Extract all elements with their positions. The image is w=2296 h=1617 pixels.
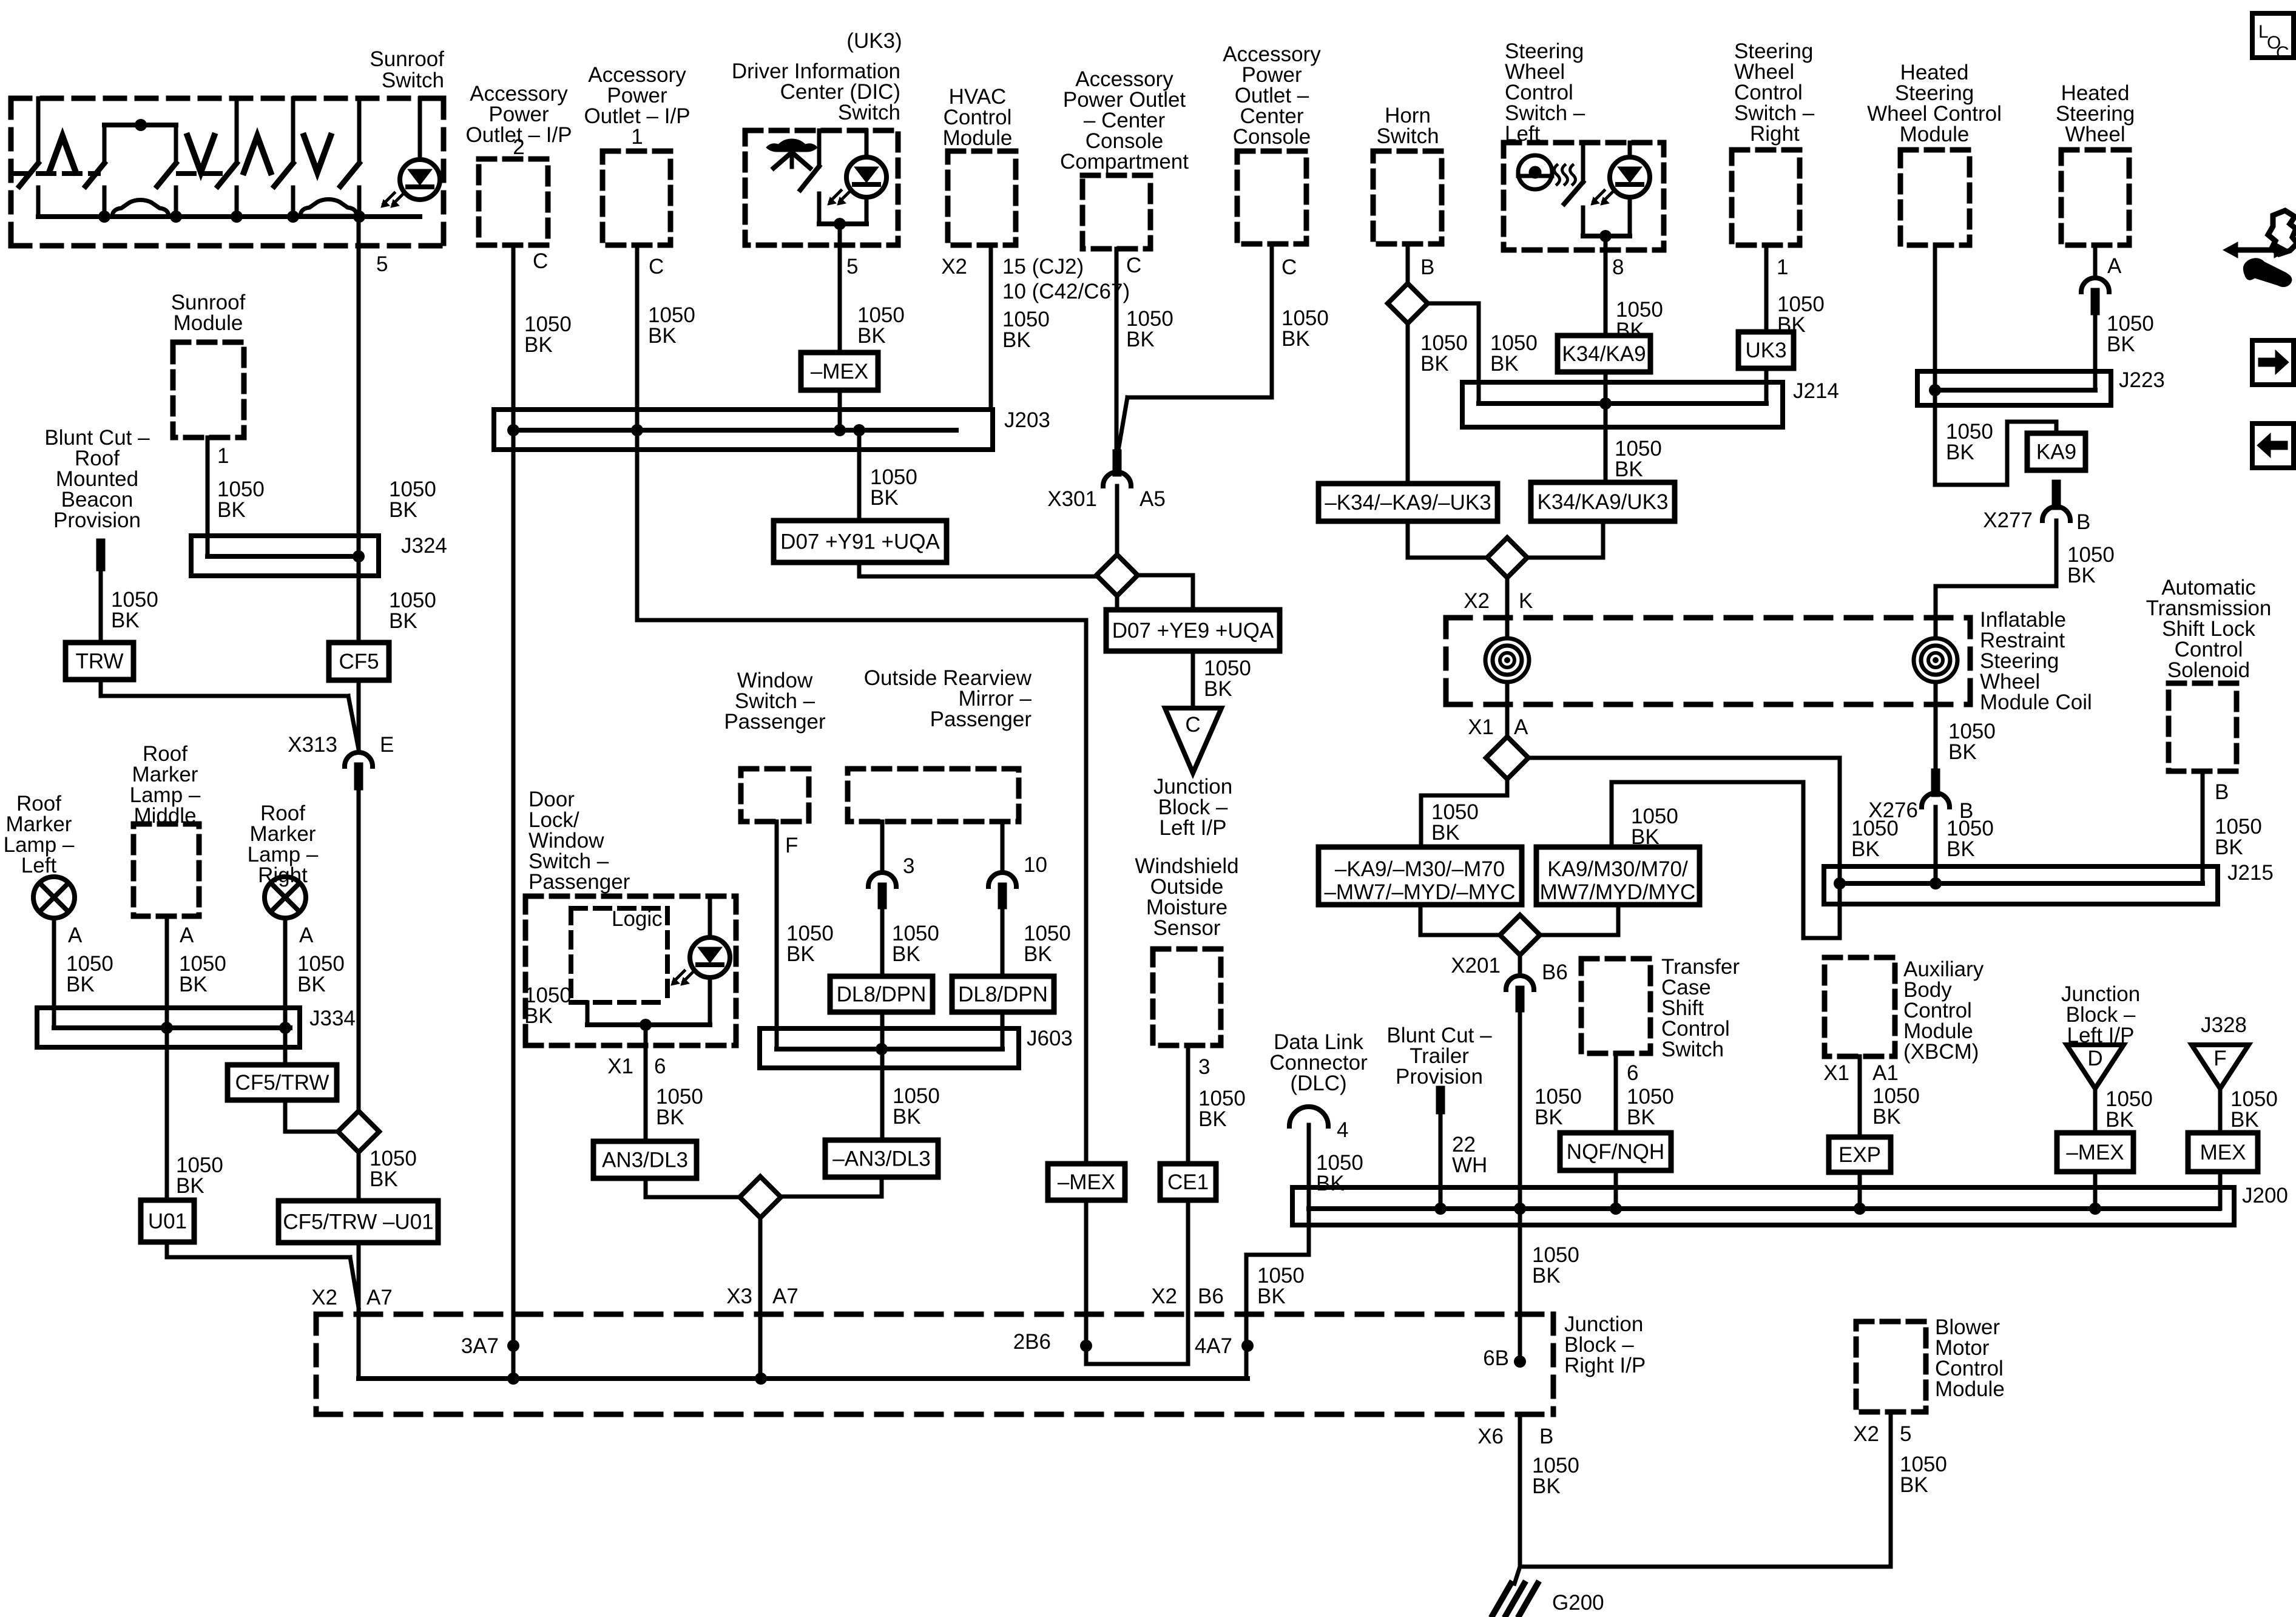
svg-text:–MEX: –MEX (1058, 1170, 1115, 1194)
svg-text:BK: BK (857, 324, 886, 348)
svg-text:KA9/M30/M70/: KA9/M30/M70/ (1547, 857, 1688, 881)
svg-text:Switch: Switch (1376, 124, 1439, 148)
svg-text:X1: X1 (1468, 715, 1494, 739)
svg-text:K: K (1519, 589, 1533, 613)
svg-text:(UK3): (UK3) (846, 29, 902, 53)
svg-text:BK: BK (870, 486, 899, 510)
svg-text:B6: B6 (1542, 960, 1568, 984)
svg-text:BK: BK (1627, 1106, 1655, 1129)
svg-text:BK: BK (176, 1174, 204, 1198)
svg-text:BK: BK (1532, 1474, 1561, 1498)
svg-text:Sensor: Sensor (1153, 916, 1221, 940)
svg-text:CF5/TRW –U01: CF5/TRW –U01 (283, 1210, 433, 1234)
svg-text:F: F (785, 834, 798, 857)
svg-text:CF5/TRW: CF5/TRW (235, 1071, 329, 1095)
svg-text:8: 8 (1612, 255, 1624, 279)
svg-text:6B: 6B (1483, 1346, 1509, 1370)
svg-text:BK: BK (1316, 1172, 1345, 1195)
svg-text:BK: BK (1490, 352, 1519, 376)
svg-text:BK: BK (1851, 837, 1880, 861)
svg-text:F: F (2213, 1047, 2226, 1070)
svg-text:J328: J328 (2201, 1013, 2247, 1037)
svg-text:Compartment: Compartment (1060, 150, 1189, 174)
svg-text:TRW: TRW (75, 650, 123, 673)
svg-text:X2: X2 (1464, 589, 1490, 613)
svg-text:BK: BK (1126, 328, 1155, 351)
svg-text:BK: BK (1616, 319, 1644, 342)
svg-text:U01: U01 (148, 1210, 187, 1234)
svg-text:5: 5 (376, 252, 388, 276)
svg-text:EXP: EXP (1838, 1143, 1881, 1167)
svg-text:BK: BK (786, 942, 815, 966)
svg-text:C: C (1281, 255, 1297, 279)
svg-text:Passenger: Passenger (528, 870, 630, 894)
svg-text:Switch: Switch (382, 69, 444, 92)
svg-text:Provision: Provision (53, 508, 141, 532)
svg-text:3A7: 3A7 (461, 1334, 499, 1358)
svg-text:Solenoid: Solenoid (2167, 658, 2250, 682)
svg-text:BK: BK (1198, 1107, 1227, 1131)
svg-text:5: 5 (846, 255, 858, 279)
svg-text:BK: BK (656, 1106, 684, 1129)
svg-text:BK: BK (2107, 333, 2135, 356)
svg-text:Passenger: Passenger (724, 710, 826, 734)
svg-text:C: C (1185, 713, 1200, 737)
svg-text:BK: BK (1947, 837, 1975, 861)
svg-text:J324: J324 (401, 534, 447, 558)
svg-text:BK: BK (1204, 677, 1232, 701)
svg-text:5: 5 (1900, 1422, 1911, 1446)
svg-text:D07 +YE9 +UQA: D07 +YE9 +UQA (1112, 619, 1274, 643)
svg-text:J603: J603 (1027, 1027, 1073, 1050)
svg-text:BK: BK (217, 498, 246, 522)
svg-text:J214: J214 (1793, 379, 1839, 403)
svg-text:X2: X2 (1853, 1422, 1879, 1446)
svg-text:CF5: CF5 (339, 650, 379, 673)
svg-text:BK: BK (370, 1167, 398, 1191)
svg-text:MW7/MYD/MYC: MW7/MYD/MYC (1540, 880, 1696, 904)
svg-text:A: A (180, 923, 194, 947)
svg-text:X3: X3 (726, 1284, 752, 1308)
svg-text:10 (C42/C67): 10 (C42/C67) (1002, 280, 1130, 303)
svg-text:BK: BK (892, 942, 920, 966)
svg-text:BK: BK (1431, 821, 1460, 845)
svg-text:10: 10 (1024, 853, 1047, 877)
svg-text:–MEX: –MEX (2066, 1141, 2124, 1164)
svg-text:K34/KA9/UK3: K34/KA9/UK3 (1538, 490, 1669, 514)
svg-text:Right I/P: Right I/P (1564, 1354, 1646, 1377)
svg-text:–MEX: –MEX (811, 360, 868, 383)
svg-text:WH: WH (1452, 1153, 1487, 1177)
svg-text:AN3/DL3: AN3/DL3 (602, 1149, 688, 1172)
svg-text:X1: X1 (1823, 1061, 1849, 1085)
svg-text:–K34/–KA9/–UK3: –K34/–KA9/–UK3 (1325, 491, 1491, 515)
svg-text:BK: BK (524, 1004, 553, 1028)
svg-text:BK: BK (1257, 1284, 1286, 1308)
svg-text:BK: BK (179, 973, 208, 996)
svg-text:X301: X301 (1047, 487, 1097, 511)
svg-text:A: A (1514, 715, 1528, 739)
svg-text:Left: Left (21, 854, 57, 877)
svg-text:J215: J215 (2227, 861, 2274, 885)
svg-text:A7: A7 (366, 1286, 393, 1309)
svg-text:(XBCM): (XBCM) (1903, 1040, 1979, 1064)
svg-text:BK: BK (1532, 1264, 1561, 1288)
svg-text:DL8/DPN: DL8/DPN (837, 983, 927, 1007)
svg-text:A7: A7 (772, 1284, 799, 1308)
svg-text:Switch: Switch (838, 101, 900, 124)
svg-text:BK: BK (1946, 441, 1974, 464)
svg-text:B: B (1539, 1425, 1553, 1448)
svg-text:Passenger: Passenger (930, 707, 1032, 731)
svg-text:BK: BK (1024, 942, 1052, 966)
svg-text:BK: BK (66, 973, 95, 996)
svg-text:Sunroof: Sunroof (370, 47, 444, 71)
svg-text:Left I/P: Left I/P (1160, 816, 1227, 840)
svg-text:BK: BK (2230, 1108, 2259, 1132)
svg-text:D07 +Y91 +UQA: D07 +Y91 +UQA (780, 530, 940, 554)
svg-text:J203: J203 (1004, 408, 1050, 432)
svg-text:Module: Module (1900, 123, 1970, 146)
svg-text:X2: X2 (311, 1286, 337, 1309)
svg-text:BK: BK (893, 1105, 921, 1129)
svg-text:C: C (2276, 43, 2289, 63)
svg-text:BK: BK (2105, 1108, 2134, 1132)
svg-text:B6: B6 (1198, 1284, 1224, 1308)
svg-text:A5: A5 (1140, 487, 1166, 511)
svg-text:Switch: Switch (1661, 1038, 1724, 1061)
svg-text:X6: X6 (1477, 1425, 1504, 1448)
svg-text:Module: Module (174, 311, 243, 335)
svg-text:B: B (2215, 780, 2229, 804)
svg-text:X277: X277 (1983, 508, 2033, 532)
svg-text:X313: X313 (288, 733, 337, 757)
svg-text:C: C (649, 255, 664, 279)
svg-text:A: A (68, 923, 83, 947)
svg-text:X1: X1 (607, 1055, 633, 1078)
svg-text:BK: BK (111, 609, 140, 632)
svg-text:J200: J200 (2242, 1184, 2288, 1207)
svg-text:X201: X201 (1451, 954, 1501, 977)
svg-text:C: C (533, 249, 548, 273)
svg-text:KA9: KA9 (2036, 441, 2076, 464)
svg-text:BK: BK (2067, 564, 2096, 587)
svg-text:BK: BK (389, 498, 417, 522)
svg-text:E: E (380, 733, 394, 757)
svg-text:Module Coil: Module Coil (1980, 690, 2092, 714)
svg-text:J223: J223 (2119, 368, 2165, 392)
svg-text:J334: J334 (309, 1007, 356, 1030)
svg-text:D: D (2087, 1047, 2102, 1070)
svg-text:3: 3 (1198, 1055, 1210, 1079)
svg-text:(DLC): (DLC) (1290, 1072, 1346, 1095)
svg-text:Console: Console (1233, 125, 1311, 149)
svg-text:A: A (299, 923, 314, 947)
svg-text:C: C (1126, 254, 1141, 277)
svg-text:BK: BK (648, 324, 677, 348)
svg-text:BK: BK (1872, 1105, 1901, 1129)
svg-text:Module: Module (1935, 1377, 2005, 1401)
svg-text:B: B (2076, 510, 2090, 534)
svg-text:CE1: CE1 (1167, 1170, 1209, 1194)
svg-text:–AN3/DL3: –AN3/DL3 (832, 1147, 930, 1171)
svg-text:BK: BK (1002, 328, 1031, 352)
svg-text:BK: BK (1420, 352, 1449, 376)
svg-text:6: 6 (654, 1055, 666, 1078)
svg-text:UK3: UK3 (1745, 339, 1786, 362)
svg-text:B: B (1420, 255, 1434, 279)
svg-text:1: 1 (631, 125, 643, 149)
svg-text:2B6: 2B6 (1013, 1330, 1051, 1354)
svg-text:1: 1 (1777, 255, 1788, 279)
svg-text:X2: X2 (1151, 1284, 1177, 1308)
svg-text:BK: BK (1535, 1106, 1563, 1129)
svg-text:BK: BK (1615, 457, 1643, 481)
svg-text:BK: BK (1948, 740, 1977, 764)
svg-text:Module: Module (943, 126, 1013, 150)
svg-text:BK: BK (1281, 327, 1310, 351)
svg-text:–KA9/–M30/–M70: –KA9/–M30/–M70 (1335, 857, 1505, 881)
svg-text:4: 4 (1337, 1118, 1348, 1142)
svg-text:X2: X2 (941, 255, 967, 279)
svg-text:K34/KA9: K34/KA9 (1562, 342, 1646, 366)
svg-text:DL8/DPN: DL8/DPN (958, 983, 1048, 1007)
svg-text:BK: BK (297, 973, 326, 996)
svg-text:4A7: 4A7 (1195, 1334, 1232, 1358)
svg-text:2: 2 (513, 135, 524, 159)
svg-text:A: A (2107, 254, 2122, 278)
svg-text:15 (CJ2): 15 (CJ2) (1002, 255, 1084, 279)
svg-text:BK: BK (524, 333, 553, 357)
svg-text:G200: G200 (1552, 1591, 1604, 1615)
svg-text:BK: BK (389, 609, 417, 633)
svg-text:–MW7/–MYD/–MYC: –MW7/–MYD/–MYC (1324, 880, 1515, 904)
svg-text:6: 6 (1627, 1061, 1638, 1085)
svg-text:Right: Right (1750, 122, 1800, 146)
svg-text:BK: BK (2215, 836, 2243, 859)
svg-text:A1: A1 (1872, 1061, 1899, 1085)
svg-text:MEX: MEX (2200, 1141, 2246, 1164)
svg-text:1: 1 (217, 444, 229, 468)
svg-text:Logic: Logic (612, 907, 663, 931)
svg-text:Provision: Provision (1396, 1065, 1483, 1089)
svg-text:3: 3 (903, 854, 914, 878)
svg-text:NQF/NQH: NQF/NQH (1567, 1140, 1664, 1164)
svg-text:BK: BK (1900, 1473, 1928, 1497)
svg-text:Wheel: Wheel (2065, 123, 2125, 146)
